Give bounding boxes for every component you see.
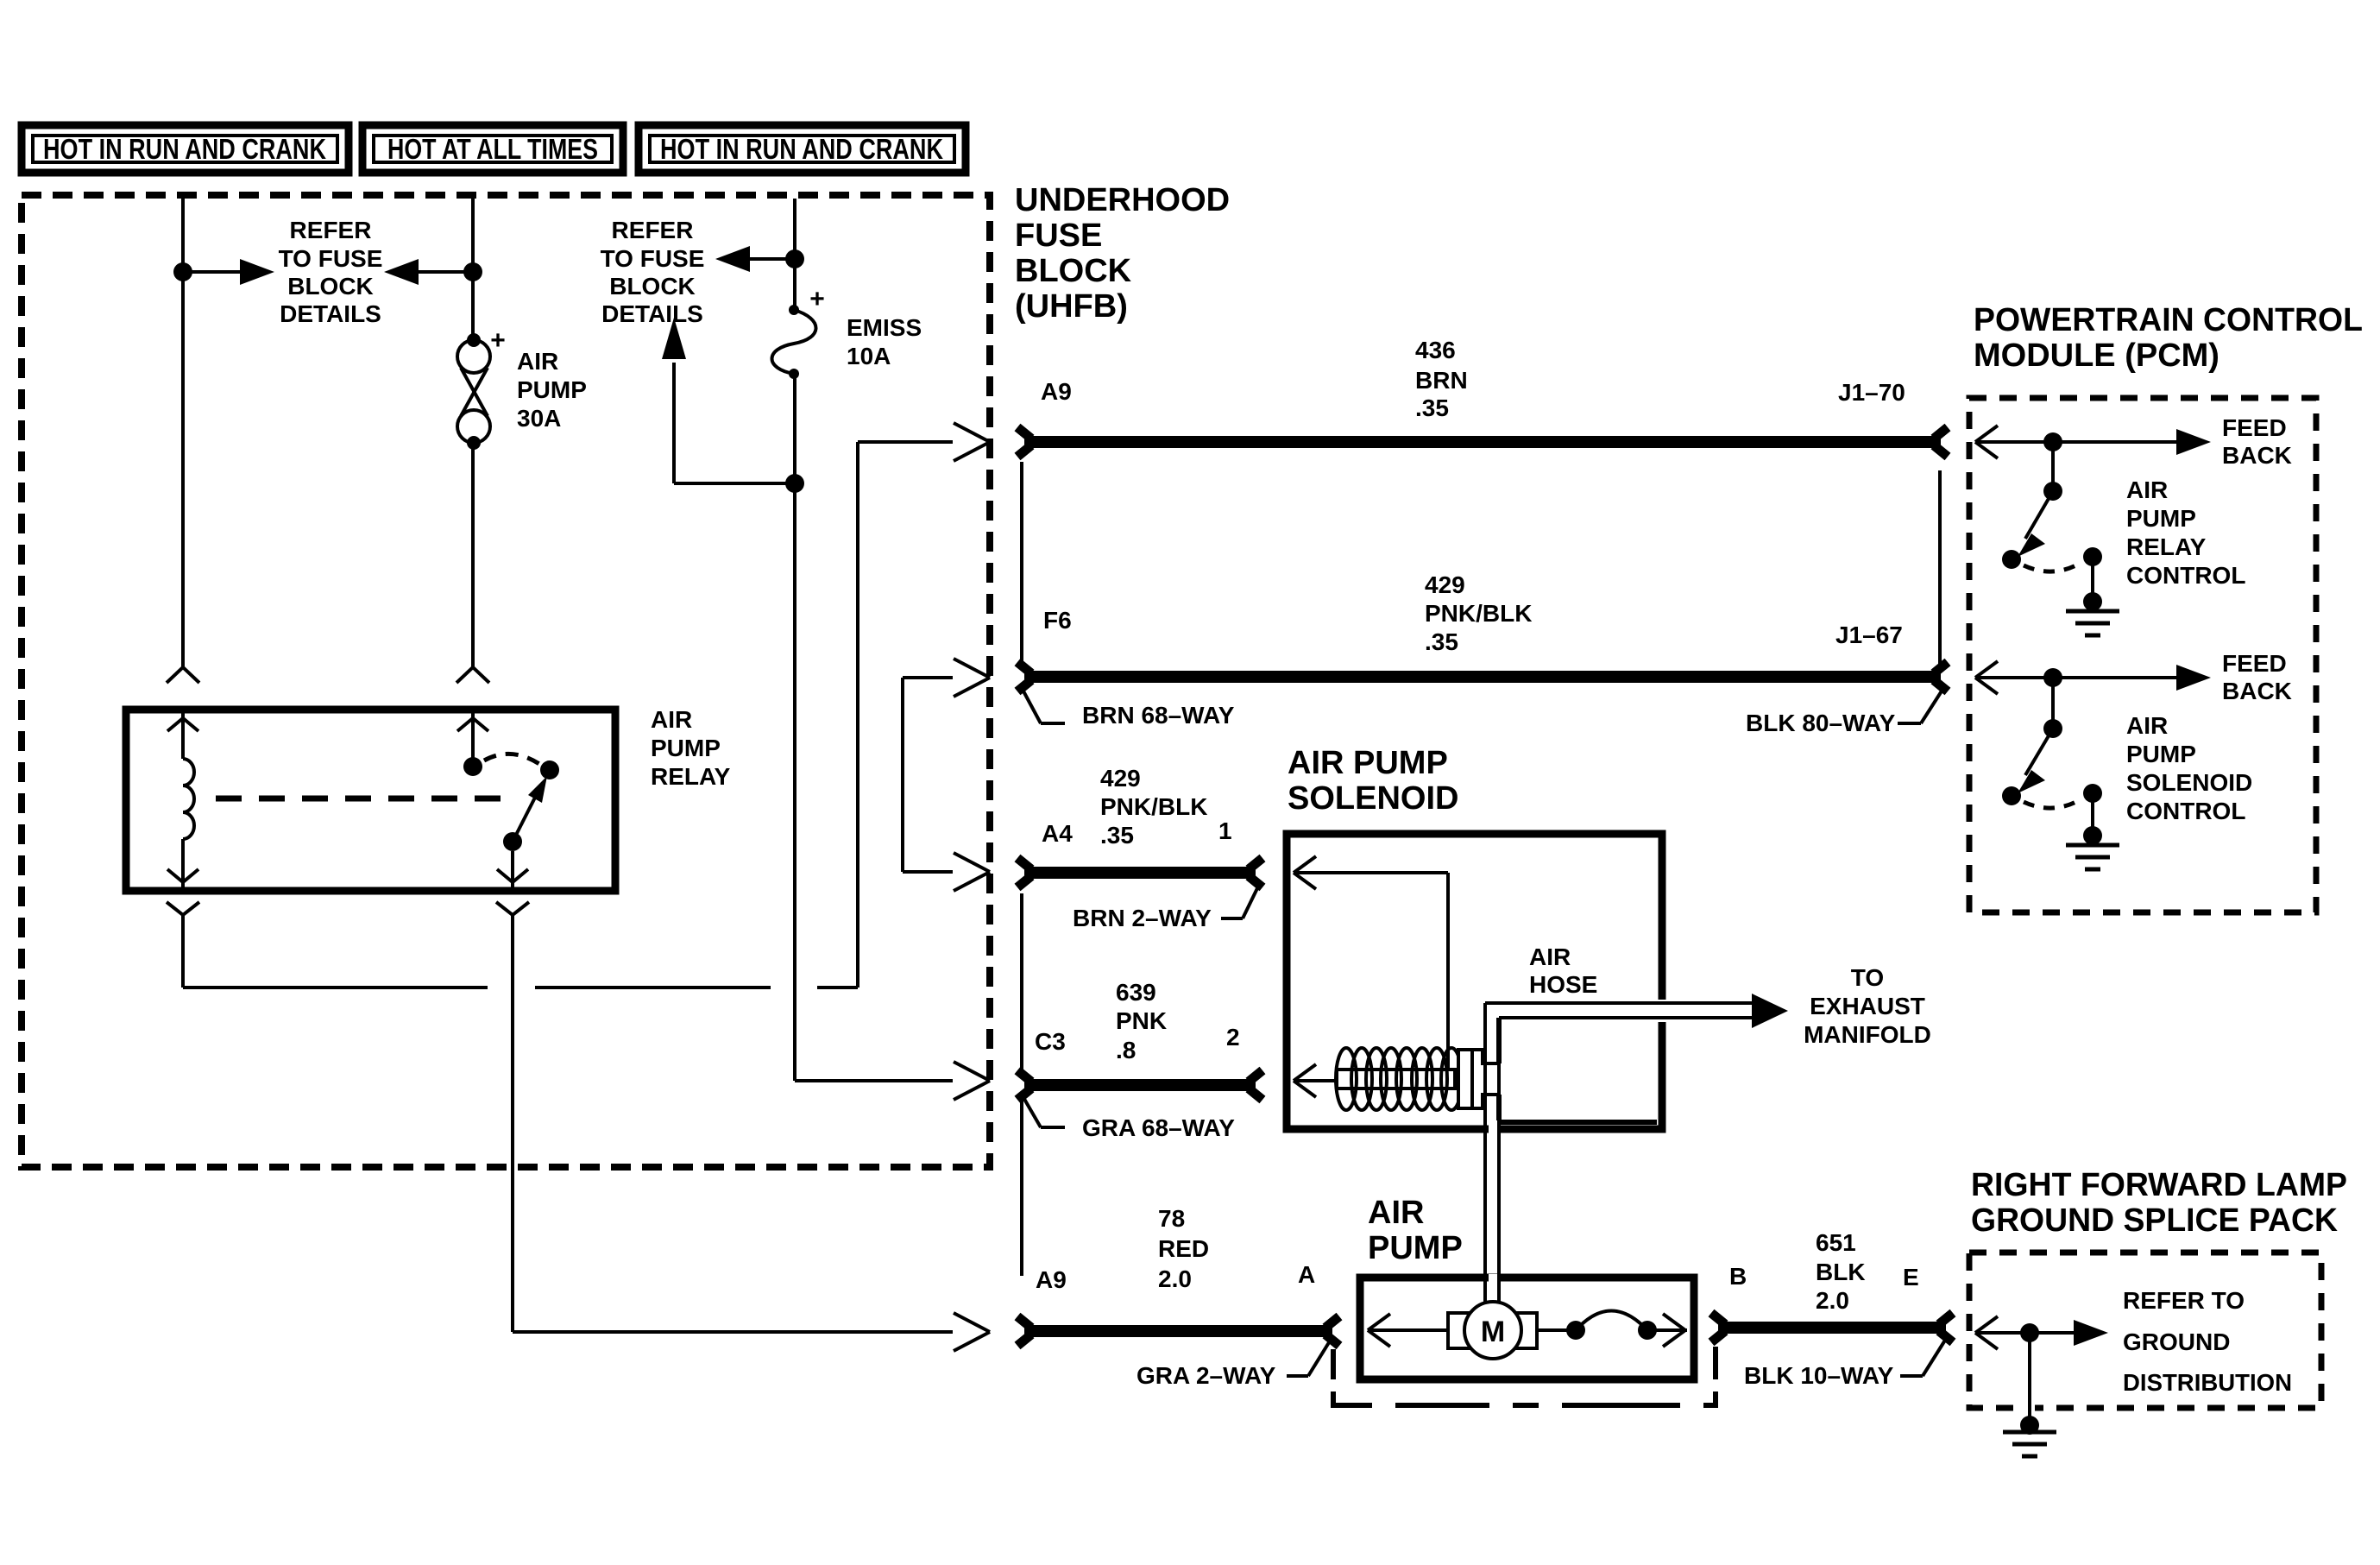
PCM dashed box (1969, 398, 2316, 912)
ground: PCM relay control (2066, 609, 2119, 614)
svg-text:HOT IN RUN AND CRANK: HOT IN RUN AND CRANK (660, 133, 943, 165)
svg-text:DETAILS: DETAILS (280, 300, 381, 327)
svg-text:BRN 2–WAY: BRN 2–WAY (1073, 905, 1212, 931)
wire 78 RED 2.0 (A9 to air pump A) (1024, 1325, 1332, 1337)
svg-text:RED: RED (1158, 1235, 1209, 1262)
svg-text:C3: C3 (1035, 1028, 1066, 1055)
power source box: HOT IN RUN AND CRANK (left) (22, 125, 349, 173)
svg-text:POWERTRAIN CONTROL: POWERTRAIN CONTROL (1974, 302, 2363, 338)
PCM air pump relay control: input terminal (1975, 426, 1998, 442)
svg-text:BACK: BACK (2222, 442, 2292, 469)
svg-text:REFER TO: REFER TO (2123, 1287, 2245, 1314)
solenoid: AIR PUMP SOLENOID box (1287, 834, 1662, 1129)
svg-text:436: 436 (1415, 337, 1456, 363)
solenoid valve chamber (1496, 1018, 1502, 1063)
svg-text:HOT IN RUN AND CRANK: HOT IN RUN AND CRANK (43, 133, 326, 165)
connector label: GRA 68-WAY with leader (1022, 1095, 1041, 1127)
svg-text:BLK 80–WAY: BLK 80–WAY (1746, 710, 1896, 736)
svg-text:+: + (490, 326, 506, 355)
wire: relay switch output down to 78 RED feed (511, 915, 514, 1332)
svg-text:.8: .8 (1116, 1037, 1136, 1063)
solenoid valve plunger (1458, 1050, 1472, 1108)
svg-text:REFER: REFER (612, 217, 694, 243)
svg-text:PUMP: PUMP (2126, 505, 2196, 532)
air pump connector dashed bracket (1331, 1349, 1336, 1379)
relay: AIR PUMP RELAY box (126, 710, 615, 891)
wire: EMISS fuse output down to 639 feed (793, 374, 796, 1081)
svg-text:AIR: AIR (2126, 476, 2168, 503)
relay mechanical link (dashed) (216, 796, 505, 802)
wire: 429 branch bracket feeding F6 and A4 wires (901, 678, 904, 872)
relay coil pin (top left) connector pair (167, 667, 199, 683)
ground: PCM solenoid control (2066, 843, 2119, 848)
svg-text:EXHAUST: EXHAUST (1810, 993, 1925, 1019)
svg-text:SOLENOID: SOLENOID (2126, 769, 2252, 796)
svg-text:GRA 68–WAY: GRA 68–WAY (1082, 1114, 1235, 1141)
svg-text:MODULE (PCM): MODULE (PCM) (1974, 338, 2219, 374)
svg-text:DISTRIBUTION: DISTRIBUTION (2123, 1369, 2292, 1396)
svg-text:429: 429 (1425, 571, 1465, 598)
fuse: EMISS 10A (789, 305, 799, 315)
solenoid coil spring loops (1336, 1048, 1357, 1110)
svg-text:PUMP: PUMP (517, 376, 587, 403)
wire: AIR PUMP fuse to relay switch contact (471, 443, 475, 667)
PCM solenoid control feedback arrow (2176, 665, 2211, 691)
PCM relay control feedback arrow (2176, 429, 2211, 455)
node: splice with arrow to fuse block details (463, 262, 482, 281)
node: splice on left feed with arrow to fuse block details (173, 262, 192, 281)
air hose to exhaust manifold (hollow tube + arrow) (1485, 1001, 1754, 1005)
svg-text:BLOCK: BLOCK (1015, 253, 1132, 289)
svg-text:.35: .35 (1415, 394, 1449, 421)
fuse: AIR PUMP 30A (maxifuse symbol) (467, 333, 481, 347)
svg-text:BRN: BRN (1415, 367, 1468, 394)
svg-text:PUMP: PUMP (2126, 741, 2196, 767)
svg-text:PNK/BLK: PNK/BLK (1100, 793, 1207, 820)
relay coil pin (bottom left) connector pair (181, 839, 185, 889)
svg-text:CONTROL: CONTROL (2126, 562, 2245, 589)
svg-text:E: E (1903, 1264, 1919, 1290)
svg-text:PUMP: PUMP (651, 735, 721, 761)
relay coil (183, 759, 194, 839)
svg-text:REFER: REFER (290, 217, 372, 243)
svg-text:J1–70: J1–70 (1838, 379, 1905, 406)
ground splice: arrow to ground distribution (2074, 1320, 2108, 1346)
wire: feed from right HOT IN RUN AND CRANK down to EMISS fuse (793, 199, 796, 311)
air pump box (1360, 1278, 1694, 1379)
wire 429 PNK/BLK .35 (A4 to solenoid pin 1) (1024, 867, 1256, 879)
svg-text:PNK/BLK: PNK/BLK (1425, 600, 1532, 627)
svg-text:.35: .35 (1425, 628, 1458, 655)
PCM solenoid control switch (2043, 668, 2062, 687)
svg-text:CONTROL: CONTROL (2126, 798, 2245, 824)
wire: feed from HOT AT ALL TIMES down to AIR PUMP fuse (471, 199, 475, 341)
svg-text:RELAY: RELAY (651, 763, 731, 790)
wire: branch with up arrow (to other circuits) (674, 482, 795, 485)
svg-text:M: M (1481, 1316, 1505, 1348)
relay switch contact pin (top right) (456, 667, 489, 683)
svg-text:J1–67: J1–67 (1835, 622, 1903, 648)
svg-text:AIR: AIR (1368, 1195, 1424, 1231)
solenoid valve step fitting (1472, 1050, 1499, 1063)
wire 429 PNK/BLK .35 (F6 to J1-67) (1024, 671, 1941, 683)
svg-text:AIR: AIR (2126, 712, 2168, 739)
air pump motor terminal A wire (1368, 1314, 1390, 1330)
svg-text:PNK: PNK (1116, 1007, 1167, 1034)
svg-text:MANIFOLD: MANIFOLD (1804, 1021, 1931, 1048)
svg-text:AIR: AIR (651, 706, 692, 733)
svg-text:B: B (1729, 1263, 1747, 1290)
wire: relay coil low side to 436 BRN (bus at y1144) (181, 915, 185, 988)
svg-text:AIR PUMP: AIR PUMP (1288, 745, 1448, 781)
svg-text:651: 651 (1816, 1229, 1856, 1256)
svg-text:BACK: BACK (2222, 678, 2292, 704)
svg-text:TO: TO (1851, 964, 1884, 991)
svg-text:A: A (1298, 1261, 1315, 1288)
air hose down to air pump (hollow tube) (1483, 1003, 1487, 1313)
svg-text:PUMP: PUMP (1368, 1230, 1463, 1266)
svg-text:FUSE: FUSE (1015, 218, 1102, 254)
air pump motor terminal B wire with thermal link (1537, 1328, 1576, 1332)
svg-text:FEED: FEED (2222, 414, 2287, 441)
svg-text:RIGHT FORWARD LAMP: RIGHT FORWARD LAMP (1971, 1167, 2347, 1203)
air hose: gaps in box borders (1651, 1000, 1666, 1022)
svg-text:A9: A9 (1041, 378, 1072, 405)
ground splice pack dashed box (1969, 1253, 2321, 1408)
svg-text:BRN 68–WAY: BRN 68–WAY (1082, 702, 1235, 729)
wire 436 BRN .35 (A9 to J1-70) (1024, 436, 1941, 448)
svg-text:78: 78 (1158, 1205, 1185, 1232)
node: splice below EMISS fuse (785, 474, 804, 493)
svg-text:FEED: FEED (2222, 650, 2287, 677)
svg-text:2.0: 2.0 (1816, 1287, 1849, 1314)
svg-text:BLOCK: BLOCK (609, 273, 696, 300)
svg-text:429: 429 (1100, 765, 1141, 792)
node: splice with arrow to fuse block details (785, 249, 804, 268)
svg-text:HOT AT ALL TIMES: HOT AT ALL TIMES (387, 133, 598, 165)
svg-text:+: + (809, 285, 825, 313)
svg-text:GRA 2–WAY: GRA 2–WAY (1136, 1362, 1276, 1389)
ground: right forward lamp splice pack (2003, 1430, 2056, 1435)
svg-text:A9: A9 (1036, 1266, 1067, 1293)
svg-text:639: 639 (1116, 979, 1156, 1006)
solenoid pin 2 wire (to coil) (1294, 1064, 1316, 1081)
svg-text:10A: 10A (847, 343, 891, 369)
svg-text:BLOCK: BLOCK (287, 273, 374, 300)
svg-text:BLK 10–WAY: BLK 10–WAY (1744, 1362, 1894, 1389)
svg-text:2: 2 (1226, 1024, 1240, 1051)
power source box: HOT IN RUN AND CRANK (right) (639, 125, 966, 173)
ground splice node and ground wire (2020, 1323, 2039, 1342)
connector bracket: PCM side (J1-70/J1-67) (1938, 470, 1942, 665)
underhood fuse block dashed boundary (22, 195, 990, 1167)
svg-text:HOSE: HOSE (1529, 971, 1597, 998)
connector label: BRN 68-WAY with leader (1022, 688, 1041, 723)
svg-text:AIR: AIR (517, 348, 558, 375)
ground splice: input terminal (1975, 1316, 1998, 1333)
svg-text:TO FUSE: TO FUSE (279, 245, 383, 272)
wire 639 PNK .8 (C3 to solenoid pin 2) (1024, 1079, 1256, 1091)
svg-text:BLK: BLK (1816, 1259, 1866, 1285)
svg-text:UNDERHOOD: UNDERHOOD (1015, 182, 1230, 218)
wire: EMISS output to 639 PNK feed (795, 1079, 953, 1082)
svg-text:(UHFB): (UHFB) (1015, 288, 1128, 325)
wire 651 BLK 2.0 (air pump B to E) (1718, 1322, 1946, 1334)
connector bracket: UHFB side (A9/F6) (1020, 462, 1023, 665)
svg-text:RELAY: RELAY (2126, 533, 2207, 560)
connector bracket: UHFB side (C3/A9) (1020, 1098, 1023, 1276)
svg-text:GROUND: GROUND (2123, 1328, 2230, 1355)
svg-text:TO FUSE: TO FUSE (601, 245, 705, 272)
relay switch common pin (bottom right) (511, 851, 514, 889)
svg-text:1: 1 (1218, 817, 1232, 844)
relay switch contacts and arm (463, 757, 482, 776)
svg-text:F6: F6 (1043, 607, 1072, 634)
solenoid coil core (1337, 1070, 1455, 1089)
air pump motor M (1448, 1313, 1537, 1348)
svg-text:2.0: 2.0 (1158, 1265, 1192, 1292)
svg-text:EMISS: EMISS (847, 314, 922, 341)
svg-text:.35: .35 (1100, 822, 1134, 849)
svg-text:DETAILS: DETAILS (601, 300, 703, 327)
svg-text:GROUND SPLICE PACK: GROUND SPLICE PACK (1971, 1202, 2339, 1239)
power source box: HOT AT ALL TIMES (362, 125, 623, 173)
svg-text:SOLENOID: SOLENOID (1288, 780, 1458, 817)
svg-text:A4: A4 (1042, 820, 1073, 847)
PCM relay control switch (2043, 432, 2062, 451)
wire: feed from left HOT IN RUN AND CRANK down to relay coil (181, 199, 185, 667)
PCM air pump solenoid control: input terminal (1975, 661, 1998, 678)
connector bracket: UHFB side (A4/C3) (1020, 893, 1023, 1073)
svg-text:AIR: AIR (1529, 943, 1571, 970)
solenoid pin 1 wire (to coil) (1294, 856, 1316, 873)
svg-text:30A: 30A (517, 405, 561, 432)
